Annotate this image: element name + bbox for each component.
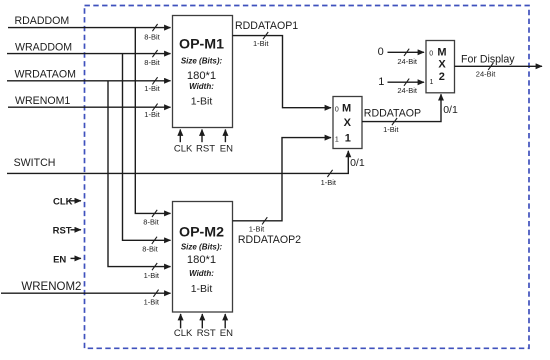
svg-text:8-Bit: 8-Bit xyxy=(143,218,159,227)
svg-text:WRDATAOM: WRDATAOM xyxy=(15,69,76,81)
svg-text:CLK: CLK xyxy=(53,196,73,207)
svg-text:OP-M2: OP-M2 xyxy=(179,225,224,241)
svg-text:RDDATAOP2: RDDATAOP2 xyxy=(238,234,301,246)
svg-text:M: M xyxy=(437,47,446,59)
svg-text:0: 0 xyxy=(429,51,433,58)
svg-text:X: X xyxy=(344,117,352,129)
svg-text:WRADDOM: WRADDOM xyxy=(15,42,72,54)
svg-text:1-Bit: 1-Bit xyxy=(144,110,160,119)
svg-text:WRENOM1: WRENOM1 xyxy=(15,95,70,107)
svg-text:Size (Bits):: Size (Bits): xyxy=(181,242,223,251)
svg-text:WRENOM2: WRENOM2 xyxy=(21,281,81,293)
svg-text:M: M xyxy=(342,103,351,115)
svg-text:8-Bit: 8-Bit xyxy=(144,32,160,41)
svg-text:1-Bit: 1-Bit xyxy=(191,96,213,108)
svg-text:RST: RST xyxy=(197,328,216,339)
svg-text:1: 1 xyxy=(345,132,351,144)
svg-text:24-Bit: 24-Bit xyxy=(397,57,418,66)
svg-text:RDDATAOP: RDDATAOP xyxy=(364,108,421,120)
svg-text:Size (Bits):: Size (Bits): xyxy=(181,56,223,65)
svg-text:1-Bit: 1-Bit xyxy=(321,178,337,187)
svg-text:180*1: 180*1 xyxy=(187,254,216,266)
svg-text:CLK: CLK xyxy=(174,328,193,339)
svg-text:1: 1 xyxy=(430,79,434,86)
svg-text:180*1: 180*1 xyxy=(187,70,216,82)
svg-text:For Display: For Display xyxy=(461,54,515,66)
svg-text:EN: EN xyxy=(220,328,233,339)
svg-text:Width:: Width: xyxy=(189,82,214,91)
svg-text:0/1: 0/1 xyxy=(350,157,365,169)
svg-text:1: 1 xyxy=(335,136,339,143)
svg-text:8-Bit: 8-Bit xyxy=(144,58,160,67)
svg-text:EN: EN xyxy=(53,254,66,265)
svg-text:1-Bit: 1-Bit xyxy=(144,271,160,280)
svg-text:0: 0 xyxy=(335,106,339,113)
svg-text:1-Bit: 1-Bit xyxy=(191,283,213,295)
svg-text:Width:: Width: xyxy=(189,269,214,278)
svg-text:1-Bit: 1-Bit xyxy=(144,297,160,306)
svg-text:1-Bit: 1-Bit xyxy=(383,125,399,134)
svg-text:24-Bit: 24-Bit xyxy=(397,86,418,95)
svg-text:OP-M1: OP-M1 xyxy=(179,37,224,53)
svg-text:2: 2 xyxy=(439,71,445,83)
svg-text:0: 0 xyxy=(378,46,384,58)
svg-text:1-Bit: 1-Bit xyxy=(253,39,269,48)
svg-text:0/1: 0/1 xyxy=(443,104,458,116)
svg-text:RST: RST xyxy=(196,143,215,154)
svg-text:8-Bit: 8-Bit xyxy=(142,245,158,254)
svg-text:1-Bit: 1-Bit xyxy=(144,84,160,93)
svg-text:X: X xyxy=(438,59,446,71)
svg-text:CLK: CLK xyxy=(174,143,193,154)
svg-text:SWITCH: SWITCH xyxy=(14,157,56,169)
svg-text:EN: EN xyxy=(220,143,233,154)
svg-text:RDADDOM: RDADDOM xyxy=(15,15,70,27)
svg-text:1-Bit: 1-Bit xyxy=(249,224,265,233)
svg-text:24-Bit: 24-Bit xyxy=(476,69,497,78)
svg-text:1: 1 xyxy=(378,76,384,88)
svg-text:RST: RST xyxy=(53,226,72,237)
svg-text:RDDATAOP1: RDDATAOP1 xyxy=(235,20,298,32)
